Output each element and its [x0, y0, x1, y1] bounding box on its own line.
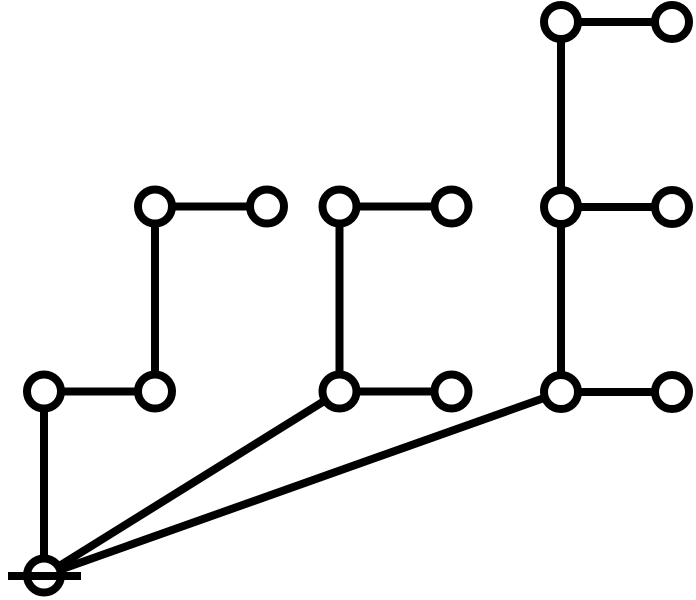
node E1 — [323, 375, 357, 409]
wire A1-A2 — [155, 203, 267, 211]
node F2 — [655, 375, 689, 409]
wire B1-E1 — [336, 207, 344, 392]
node D1 — [27, 375, 61, 409]
root tick mark — [8, 572, 81, 580]
node T2 — [655, 5, 689, 39]
wire B1-B2 — [340, 203, 452, 211]
wire F1-F2 — [561, 388, 672, 396]
wire T1-C1 — [557, 22, 565, 207]
node T1 — [544, 5, 578, 39]
wire C1-C2 — [561, 203, 672, 211]
wire D1-R — [40, 392, 48, 576]
wire D1-D2 — [44, 388, 155, 396]
wire C1-F1 — [557, 207, 565, 392]
node F1 — [544, 375, 578, 409]
node B2 — [435, 190, 469, 224]
wire R-E1 diagonal — [44, 392, 340, 576]
node A1 — [138, 190, 172, 224]
wire R-F1 diagonal — [44, 392, 561, 576]
wire E1-E2 — [340, 388, 452, 396]
node A2 — [250, 190, 284, 224]
node C2 — [655, 190, 689, 224]
node B1 — [323, 190, 357, 224]
node R root — [27, 559, 61, 593]
node E2 — [435, 375, 469, 409]
wire A1-D2 — [151, 207, 159, 392]
node D2 — [138, 375, 172, 409]
node C1 — [544, 190, 578, 224]
wire T1-T2 — [561, 18, 672, 26]
